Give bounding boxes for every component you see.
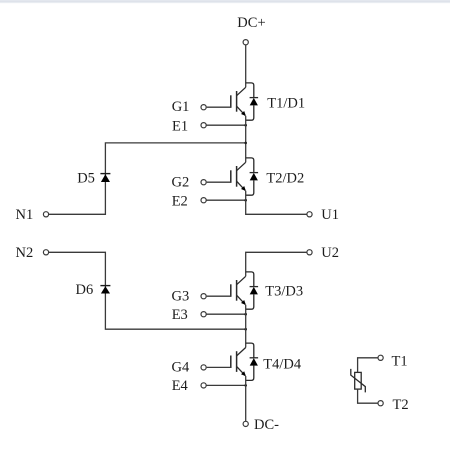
wire T4 emitter to DC-: [245, 376, 247, 421]
wire E4: [206, 384, 246, 386]
top border line: [0, 0, 450, 1]
transistor T4 (IGBT): [207, 348, 246, 377]
svg-text:T2: T2: [393, 397, 409, 413]
terminal DC+: [243, 40, 248, 45]
wire DC+ to T1: [245, 45, 247, 88]
terminal E1: [201, 123, 206, 128]
wire U2 to T3 collector: [246, 252, 307, 276]
diode D5: [100, 174, 110, 182]
wire E1: [206, 124, 246, 126]
wire N2 to D6 to bus: [49, 252, 246, 329]
diode D4 (anti-parallel): [246, 343, 258, 380]
junction E4: [244, 384, 247, 387]
transistor T2 (IGBT): [207, 162, 246, 191]
wire thermistor to T1 terminal: [358, 358, 378, 373]
terminal E4: [201, 383, 206, 388]
transistor T1 (IGBT): [207, 87, 246, 116]
svg-text:D6: D6: [76, 282, 94, 298]
diode D3 (anti-parallel): [246, 272, 258, 309]
svg-text:E3: E3: [172, 307, 188, 323]
wire thermistor to T2 terminal: [358, 389, 378, 403]
svg-text:G3: G3: [172, 288, 190, 304]
junction D6 bottom: [244, 328, 247, 331]
svg-text:E1: E1: [172, 119, 188, 135]
wire T1 emitter to T2 collector: [245, 116, 247, 163]
svg-text:U1: U1: [321, 207, 339, 223]
svg-text:D5: D5: [77, 170, 95, 186]
svg-text:T1: T1: [392, 353, 408, 369]
wire T2 emitter down to U1: [246, 191, 307, 215]
svg-text:DC+: DC+: [237, 15, 265, 31]
wire E2: [206, 199, 246, 201]
wire N1 to D5 to bus: [49, 143, 246, 214]
junction E3: [244, 313, 247, 316]
junction D5 top: [244, 142, 247, 145]
terminal U1: [307, 212, 312, 217]
terminal N2: [43, 250, 48, 255]
svg-text:T3/D3: T3/D3: [265, 284, 303, 300]
thermistor RT body: [351, 369, 366, 393]
terminal G1: [201, 105, 206, 110]
terminal T2: [378, 401, 383, 406]
terminal G4: [201, 365, 206, 370]
svg-text:G4: G4: [172, 360, 190, 376]
terminal U2: [307, 250, 312, 255]
terminal E3: [201, 312, 206, 317]
terminal T1: [378, 355, 383, 360]
diode D2 (anti-parallel): [246, 158, 258, 195]
svg-text:E4: E4: [172, 378, 189, 394]
terminal E2: [201, 198, 206, 203]
terminal DC-: [243, 421, 248, 426]
junction E2: [244, 199, 247, 202]
terminal G3: [201, 294, 206, 299]
svg-text:T2/D2: T2/D2: [266, 171, 304, 187]
svg-text:DC-: DC-: [254, 417, 279, 433]
terminal N1: [43, 212, 48, 217]
junction E1: [244, 124, 247, 127]
svg-text:N2: N2: [16, 245, 34, 261]
wire E3: [206, 313, 246, 315]
svg-text:E2: E2: [172, 193, 188, 209]
wire T3 emitter to T4 collector: [245, 305, 247, 348]
transistor T3 (IGBT): [207, 276, 246, 305]
svg-text:G2: G2: [172, 174, 190, 190]
diode D6: [100, 286, 110, 294]
diode D1 (anti-parallel): [246, 83, 258, 120]
svg-text:N1: N1: [16, 207, 34, 223]
terminal G2: [201, 180, 206, 185]
svg-text:T1/D1: T1/D1: [267, 95, 305, 111]
svg-text:G1: G1: [172, 99, 190, 115]
svg-text:U2: U2: [321, 245, 339, 261]
svg-text:T4/D4: T4/D4: [263, 356, 302, 372]
